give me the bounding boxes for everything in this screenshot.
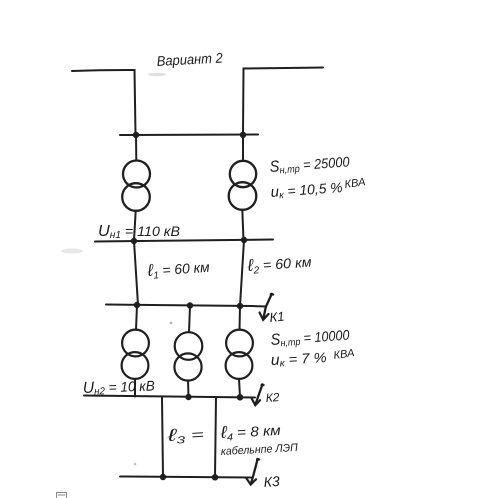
wire: line l2 xyxy=(240,240,244,306)
wire: T5 secondary stub xyxy=(239,379,240,397)
svg-text:uк = 7 %: uк = 7 % xyxy=(270,349,327,370)
scan artifact: tiny icon bottom-left xyxy=(57,493,67,498)
node: junction bus4-right xyxy=(212,474,218,480)
wire: T4 primary stub xyxy=(189,306,190,333)
svg-text:Uн1 = 110 кВ: Uн1 = 110 кВ xyxy=(98,223,180,241)
wire: T4 secondary stub xyxy=(187,381,190,397)
svg-text:ℓ1 = 60 км: ℓ1 = 60 км xyxy=(146,257,211,282)
svg-text:К3: К3 xyxy=(263,473,280,490)
scan artifact: faint speck above bus4 xyxy=(134,463,137,466)
scan artifact: faint speck near T3 xyxy=(170,322,173,325)
svg-text:КВА: КВА xyxy=(333,347,355,362)
node: junction bus2-mid xyxy=(187,302,193,308)
short-circuit marker K2 xyxy=(252,384,280,405)
wire: bus 110 kV xyxy=(95,240,273,242)
short-circuit marker K1 xyxy=(252,294,285,325)
transformer T1 xyxy=(122,161,150,211)
transformer T4 xyxy=(174,332,202,380)
node: junction bus2-left xyxy=(134,302,140,308)
wire: bus 1 (transformer primary tie) xyxy=(120,134,258,137)
transformer T5 xyxy=(226,330,253,379)
wire: line l4 xyxy=(215,398,216,478)
wire: T2 primary stub xyxy=(242,135,244,161)
node: junction bus3-right xyxy=(237,394,243,400)
wire: right source feeder xyxy=(243,68,323,135)
wire: bus 4 (cable end bus) xyxy=(120,477,251,478)
wire: left source feeder xyxy=(72,70,136,134)
short-circuit marker K3 xyxy=(246,459,280,490)
scan artifact: faint smudge near title xyxy=(148,73,166,77)
wire: line l3 xyxy=(162,398,163,478)
wire: T3 primary stub xyxy=(136,305,137,330)
node: junction bus3-mid xyxy=(185,394,191,400)
wire: line l1 xyxy=(134,241,138,305)
scan artifact: faint smudge left of 110kV bus xyxy=(61,249,83,254)
wire: T1 secondary stub xyxy=(134,211,136,241)
node: junction bus2-right xyxy=(237,303,243,309)
wire: T5 primary stub xyxy=(239,306,242,330)
transformer T3 xyxy=(122,330,149,379)
svg-text:КВА: КВА xyxy=(344,176,366,191)
svg-text:кабельнпе ЛЭП: кабельнпе ЛЭП xyxy=(221,442,299,458)
svg-text:К1: К1 xyxy=(269,309,285,325)
svg-text:ℓ3 =: ℓ3 = xyxy=(166,424,205,447)
svg-text:uк = 10,5 %: uк = 10,5 % xyxy=(270,179,343,202)
svg-text:Sн,тр = 25000: Sн,тр = 25000 xyxy=(269,153,350,177)
wire: T3 secondary stub xyxy=(134,379,136,397)
wire: T2 secondary stub xyxy=(242,210,243,240)
svg-text:Sн,тр = 10000: Sн,тр = 10000 xyxy=(270,327,350,350)
node: junction bus4-left xyxy=(160,474,166,480)
svg-text:Вариант 2: Вариант 2 xyxy=(156,50,223,69)
node: junction bus110-right xyxy=(241,237,247,243)
svg-text:ℓ4 = 8 км: ℓ4 = 8 км xyxy=(219,420,282,444)
wire: bus 2 (K1 bus) xyxy=(106,305,252,307)
svg-text:ℓ2 = 60 км: ℓ2 = 60 км xyxy=(246,252,313,278)
wire: T1 primary stub xyxy=(135,135,137,161)
svg-text:К2: К2 xyxy=(265,390,280,405)
node: junction bus1-left xyxy=(133,132,139,138)
transformer T2 xyxy=(229,161,257,210)
wire: bus 3 (10 kV bus) xyxy=(84,396,255,398)
node: junction bus1-right xyxy=(240,132,246,138)
node: junction bus110-left xyxy=(131,238,137,244)
